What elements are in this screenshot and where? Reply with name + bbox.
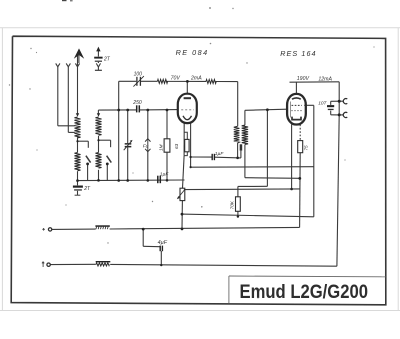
svg-text:190V: 190V [297,76,310,82]
svg-text:75: 75 [304,145,309,151]
svg-text:2T: 2T [103,56,111,62]
svg-text:70K: 70K [229,200,234,209]
svg-text:250: 250 [132,100,142,106]
svg-text:1M: 1M [159,144,164,151]
svg-text:10T: 10T [318,101,327,107]
svg-text:70V: 70V [171,76,181,82]
svg-text:Emud L2G/G200: Emud L2G/G200 [240,282,369,303]
svg-text:4µF: 4µF [158,240,168,246]
svg-text:RE 084: RE 084 [176,48,209,57]
svg-text:12mA: 12mA [318,76,332,82]
svg-text:1µF: 1µF [160,171,170,177]
svg-text:100: 100 [134,72,143,78]
svg-text:2T: 2T [83,186,91,192]
svg-text:2mA: 2mA [190,76,202,82]
svg-text:RES 164: RES 164 [280,49,316,58]
svg-text:63: 63 [174,143,179,149]
svg-text:1µF: 1µF [215,151,225,157]
svg-text:Fu: Fu [143,144,149,150]
